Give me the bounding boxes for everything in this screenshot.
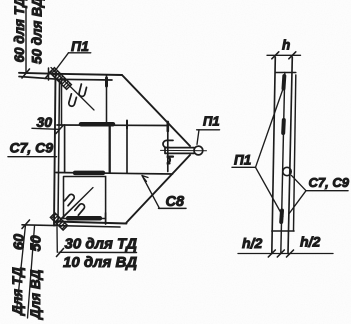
side view bottom edge [272, 230, 294, 232]
svg-text:50: 50 [29, 235, 45, 251]
plate top edge lower line [19, 77, 112, 81]
leader П1 side to top anchor [256, 88, 284, 168]
h/2 ticks [268, 250, 293, 257]
tick at lower box bottom-right corner [105, 213, 107, 224]
leader С7С9 to circle [291, 175, 306, 190]
svg-text:Для ВД: Для ВД [28, 269, 43, 320]
tick at top dimension [22, 69, 30, 78]
plate top-right diagonal edge [122, 75, 190, 146]
fraction line 30/10 [59, 251, 137, 253]
dimension line для ТД [17, 225, 26, 311]
plate bottom edge upper line [56, 222, 127, 224]
svg-text:С8: С8 [166, 194, 185, 210]
plate bottom edge lower line with extension [22, 225, 120, 227]
lower anchor box [64, 177, 106, 219]
tick bottom-left dimension [22, 220, 30, 229]
leader П1 side to bottom anchor [256, 167, 284, 216]
extension from bottom corner down [56, 227, 58, 252]
svg-text:h/2: h/2 [242, 235, 262, 251]
side view top edge [275, 72, 296, 74]
anchor plate П1 top-left (hatched bar) [50, 68, 72, 90]
svg-text:П1: П1 [234, 153, 251, 168]
band inner box left edge [64, 125, 66, 173]
band top edge [57, 124, 168, 127]
band divider line [126, 125, 128, 173]
h dimension line [267, 54, 301, 56]
svg-text:50 для ВД: 50 для ВД [30, 0, 45, 64]
band right edge [167, 122, 169, 172]
anchor loop 2 top-left [68, 94, 77, 107]
band bottom edge [56, 173, 173, 175]
anchor loop 1 bottom-left [64, 193, 76, 205]
side view plate far face line [294, 75, 296, 231]
svg-text:С7, С9: С7, С9 [309, 175, 350, 190]
band inner box right edge [109, 125, 111, 173]
anchor plate mark top (side) [282, 76, 287, 89]
dimension line vertical top-left [25, 8, 27, 74]
h/2 dimension line [238, 253, 333, 255]
svg-text:30: 30 [37, 114, 53, 130]
weld dashes on band top edge [81, 122, 113, 127]
lower anchor box bottom edge [64, 218, 106, 220]
svg-text:h/2: h/2 [300, 234, 320, 250]
svg-text:60 для ТД: 60 для ТД [12, 0, 27, 63]
plate top edge upper line with extension [19, 73, 122, 75]
svg-text:30 для ТД: 30 для ТД [65, 236, 138, 253]
side view left edge [272, 57, 276, 254]
tick on bottom fraction [57, 249, 64, 257]
weld dash on upper box right top [105, 78, 108, 86]
anchor plate П1 bottom-left (hatched bar) [50, 213, 67, 230]
svg-text:10 для ВД: 10 для ВД [63, 254, 137, 271]
weld tick on band right edge top [167, 122, 170, 131]
bolt body [165, 148, 194, 154]
leader С7С9 to lower weld [289, 191, 306, 214]
plate left edge inner line [58, 80, 60, 222]
anchor loop circle (side) [283, 167, 291, 175]
h tick right [289, 52, 296, 59]
tick secondary at top extension [45, 68, 52, 80]
leader П1 right [197, 130, 199, 145]
tick on band top at divider [126, 121, 128, 129]
arrowhead С8 [142, 176, 148, 182]
anchor loop 2 bottom-left [74, 203, 86, 215]
upper anchor box right edge [106, 75, 108, 125]
upper anchor box left edge [61, 80, 63, 125]
bolt hook lower [167, 157, 173, 164]
weld dashes on band bottom edge [75, 171, 103, 176]
svg-text:60: 60 [12, 234, 28, 250]
svg-text:Для ТД: Для ТД [10, 267, 25, 316]
anchor plate mark middle (side) [281, 120, 286, 133]
h tick left [272, 52, 279, 59]
leader С8 [142, 176, 160, 209]
anchor rod axis line top-left [51, 68, 94, 111]
svg-text:П1: П1 [71, 38, 89, 54]
tick at 30 leader end [56, 126, 63, 134]
weld dashes on lower box bottom [68, 216, 100, 221]
leader П1 top-left [55, 53, 69, 72]
anchor rod axis second line bottom-left [60, 193, 88, 220]
svg-text:П1: П1 [203, 114, 220, 129]
side view anchor rod line [281, 73, 285, 254]
anchor loop 1 top-left [78, 84, 87, 97]
plate bottom-right diagonal edge [127, 155, 191, 223]
anchor plate mark bottom (side) [279, 211, 284, 223]
dimension line для ВД [28, 226, 35, 318]
anchor rod axis line bottom-left [55, 188, 93, 226]
bolt hook upper [163, 140, 173, 147]
plate left edge outer line [54, 74, 56, 226]
bolt head circle [194, 146, 203, 155]
svg-text:h: h [282, 38, 290, 53]
svg-text:С7, С9: С7, С9 [10, 140, 54, 156]
bolt centerline at right vertex [161, 149, 207, 151]
side view plate face line [288, 57, 292, 254]
